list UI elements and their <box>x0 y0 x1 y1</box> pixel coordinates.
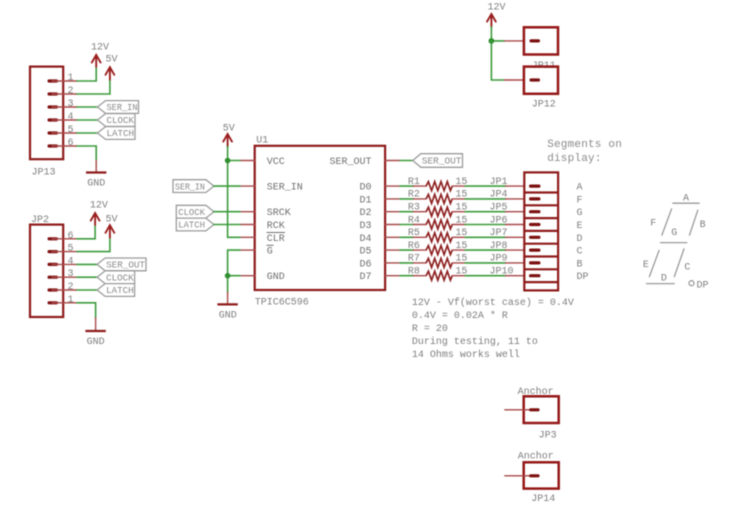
svg-text:JP12: JP12 <box>532 100 556 111</box>
connectors JP1 JP4 JP5 JP6 JP7 JP8 JP9 JP10 (stacked) <box>524 172 558 290</box>
resistor R8 <box>408 267 468 281</box>
svg-text:JP8: JP8 <box>490 241 508 252</box>
wire R7 to JP9 <box>452 254 524 265</box>
wire 12V to JP12 <box>491 41 524 80</box>
svg-text:R5: R5 <box>408 228 420 239</box>
svg-text:R4: R4 <box>408 215 420 226</box>
svg-text:D1: D1 <box>359 195 371 206</box>
segment E <box>643 250 659 276</box>
resistor R7 <box>408 254 468 268</box>
wire JP13 pin6 to GND <box>77 146 96 171</box>
wire R1 to JP1 <box>452 177 524 188</box>
net label CLOCK (JP2) <box>97 271 135 284</box>
svg-text:E: E <box>643 260 649 271</box>
svg-text:JP5: JP5 <box>490 203 508 214</box>
JP13 pin numbers 1-6 <box>68 73 74 149</box>
wire D2 to R3 <box>400 211 426 213</box>
segment D <box>647 274 675 285</box>
U1 right pin names <box>329 157 371 283</box>
net label SER_IN (JP13) <box>98 101 139 114</box>
svg-text:5: 5 <box>68 125 74 136</box>
svg-text:D0: D0 <box>359 183 371 194</box>
supply +12V (JP13) <box>91 43 109 67</box>
svg-text:D3: D3 <box>359 221 371 232</box>
segment G <box>661 228 687 243</box>
svg-text:SER_OUT: SER_OUT <box>329 157 371 168</box>
svg-text:JP3: JP3 <box>539 431 557 442</box>
connector JP2 <box>30 215 77 317</box>
wire 5V rail to VCC and CLR <box>228 147 240 238</box>
connector JP3 (Anchor) <box>505 386 559 442</box>
svg-text:JP14: JP14 <box>531 494 555 505</box>
U1 right pin stubs <box>385 161 400 276</box>
svg-text:LATCH: LATCH <box>178 220 205 231</box>
svg-text:CLR: CLR <box>267 234 285 245</box>
svg-text:JP6: JP6 <box>490 215 508 226</box>
svg-text:JP13: JP13 <box>32 168 56 179</box>
segment B <box>690 210 706 235</box>
net label LATCH (JP2) <box>97 284 135 297</box>
svg-text:C: C <box>684 263 690 274</box>
svg-text:CLOCK: CLOCK <box>106 272 134 283</box>
connector JP14 (Anchor) <box>505 451 559 506</box>
wire R6 to JP8 <box>452 241 524 252</box>
svg-text:R3: R3 <box>408 203 420 214</box>
wire CLOCK to SRCK <box>214 211 240 213</box>
wire R8 to JP10 <box>452 267 524 278</box>
svg-text:12V: 12V <box>488 3 506 14</box>
resistor R5 <box>408 228 468 242</box>
wire JP13 pin5 <box>77 132 98 134</box>
note: resistor calculation <box>412 297 574 361</box>
wire D0 to R1 <box>400 185 426 187</box>
wire JP13 pin1 to 12V <box>77 67 96 81</box>
svg-text:R1: R1 <box>408 177 420 188</box>
svg-text:6: 6 <box>68 231 74 242</box>
wire JP13 pin4 <box>77 119 98 121</box>
wire D1 to R2 <box>400 198 426 200</box>
segment F <box>650 209 671 235</box>
svg-text:6: 6 <box>68 138 74 149</box>
svg-text:G: G <box>267 247 273 258</box>
svg-text:D2: D2 <box>359 208 371 219</box>
svg-text:C: C <box>577 247 583 258</box>
wire SER_IN to U1 <box>214 185 240 187</box>
svg-text:D6: D6 <box>359 259 371 270</box>
wire R4 to JP6 <box>452 215 524 226</box>
net label SER_OUT (U1) <box>413 154 463 168</box>
svg-text:2: 2 <box>68 282 74 293</box>
svg-text:3: 3 <box>68 269 74 280</box>
ground GND (JP13) <box>86 173 106 190</box>
wire JP2 pin1 to GND <box>77 303 96 330</box>
svg-text:Segments on: Segments on <box>547 139 622 151</box>
svg-text:SER_IN: SER_IN <box>175 181 205 192</box>
svg-text:R2: R2 <box>408 190 420 201</box>
svg-text:JP2: JP2 <box>31 215 49 226</box>
svg-text:2: 2 <box>68 86 74 97</box>
supply +5V (JP2) <box>106 214 118 237</box>
svg-text:GND: GND <box>87 179 105 190</box>
svg-text:Anchor: Anchor <box>518 451 554 463</box>
svg-text:R6: R6 <box>408 241 420 252</box>
svg-text:E: E <box>577 221 583 232</box>
net label SER_IN (U1) <box>173 180 214 193</box>
svg-text:5: 5 <box>68 244 74 255</box>
svg-text:12V: 12V <box>90 201 108 212</box>
segment letters A F G E D C B DP <box>577 183 589 284</box>
wire JP2 pin3 <box>77 276 97 278</box>
svg-text:5V: 5V <box>106 214 118 225</box>
wire D7 to R8 <box>400 275 426 277</box>
svg-text:U1: U1 <box>256 136 268 147</box>
svg-text:14 Ohms works well: 14 Ohms works well <box>412 349 520 361</box>
seven-segment sketch: segment A <box>673 193 699 204</box>
svg-text:D7: D7 <box>359 272 371 283</box>
net label CLOCK (U1) <box>176 205 214 218</box>
svg-text:JP10: JP10 <box>490 267 514 278</box>
wire 12V to JP11 <box>491 27 524 41</box>
wire LATCH to RCK <box>214 224 240 226</box>
wire D4 to R5 <box>400 236 426 238</box>
svg-text:LATCH: LATCH <box>106 285 134 296</box>
svg-text:F: F <box>650 218 656 229</box>
net label CLOCK (JP13) <box>98 114 136 127</box>
svg-text:0.4V = 0.02A * R: 0.4V = 0.02A * R <box>412 310 508 322</box>
segment C <box>674 249 690 277</box>
svg-text:display:: display: <box>547 153 601 165</box>
svg-text:JP1: JP1 <box>490 177 508 188</box>
svg-text:CLOCK: CLOCK <box>107 115 135 126</box>
wire JP13 pin3 <box>77 106 98 108</box>
junction node VCC <box>225 158 231 164</box>
connector JP13 <box>30 67 77 179</box>
junction node 12V <box>489 38 495 44</box>
svg-text:D4: D4 <box>359 234 371 245</box>
svg-text:A: A <box>683 193 689 204</box>
wire R3 to JP5 <box>452 203 524 214</box>
note: Segments on display <box>547 139 622 165</box>
svg-text:GND: GND <box>219 311 237 322</box>
U1 left pin stubs <box>240 161 255 276</box>
wire R5 to JP7 <box>452 228 524 239</box>
supply +12V (JP2) <box>90 201 108 225</box>
svg-text:D5: D5 <box>359 247 371 258</box>
wire JP13 pin2 to 5V <box>77 80 110 94</box>
resistor R6 <box>408 241 468 255</box>
ground GND (U1) <box>217 292 237 321</box>
svg-text:DP: DP <box>577 272 589 283</box>
svg-text:CLOCK: CLOCK <box>178 207 205 218</box>
svg-text:5V: 5V <box>223 124 235 135</box>
svg-text:R = 20: R = 20 <box>412 324 448 335</box>
svg-text:SER_OUT: SER_OUT <box>422 156 462 167</box>
svg-text:GND: GND <box>267 272 285 283</box>
svg-text:SER_IN: SER_IN <box>107 102 138 113</box>
wire G to GND rail <box>228 250 240 292</box>
svg-text:SER_IN: SER_IN <box>267 183 303 194</box>
op-amp U1 (IC TPIC6C596 shift register box) <box>255 136 385 309</box>
svg-text:4: 4 <box>68 112 74 123</box>
svg-text:R8: R8 <box>408 267 420 278</box>
junction node GND <box>225 273 231 279</box>
wire D3 to R4 <box>400 224 426 226</box>
connector JP12 <box>524 67 558 111</box>
svg-text:VCC: VCC <box>267 157 285 168</box>
svg-text:LATCH: LATCH <box>107 128 135 139</box>
svg-text:4: 4 <box>68 256 74 267</box>
decimal point DP <box>689 281 709 292</box>
wire R2 to JP4 <box>452 190 524 201</box>
svg-text:G: G <box>671 228 677 239</box>
resistor R4 <box>408 215 468 229</box>
resistor R2 <box>408 190 468 204</box>
svg-text:F: F <box>577 195 583 206</box>
net label SER_OUT (JP2) <box>97 258 146 271</box>
svg-text:A: A <box>577 183 583 194</box>
U1 left pin names <box>267 157 303 283</box>
svg-text:G: G <box>577 208 583 219</box>
wire JP2 pin2 <box>77 289 97 291</box>
svg-text:1: 1 <box>68 295 74 306</box>
supply +5V (JP13) <box>106 55 118 80</box>
svg-text:R7: R7 <box>408 254 420 265</box>
connector JP11 <box>524 27 558 72</box>
svg-text:12V: 12V <box>91 43 109 54</box>
svg-text:12V - Vf(worst case) = 0.4V: 12V - Vf(worst case) = 0.4V <box>412 297 574 309</box>
net label LATCH (JP13) <box>98 127 136 140</box>
svg-text:D: D <box>577 234 583 245</box>
svg-text:SRCK: SRCK <box>267 208 291 219</box>
supply +12V (JP11/JP12) <box>487 3 506 27</box>
svg-text:JP7: JP7 <box>490 228 508 239</box>
svg-text:5V: 5V <box>106 55 118 66</box>
supply +5V (U1) <box>223 124 235 147</box>
resistor R3 <box>408 203 468 217</box>
svg-text:B: B <box>577 259 583 270</box>
ground GND (JP2) <box>85 331 105 348</box>
svg-text:JP4: JP4 <box>490 190 508 201</box>
svg-text:B: B <box>700 220 706 231</box>
svg-text:3: 3 <box>68 99 74 110</box>
wire D5 to R6 <box>400 249 426 251</box>
svg-text:RCK: RCK <box>267 221 285 232</box>
wire SER_OUT <box>400 160 413 162</box>
svg-text:GND: GND <box>87 337 105 348</box>
svg-text:JP9: JP9 <box>490 254 508 265</box>
wire JP2 pin6 to 12V <box>77 225 95 239</box>
wire D6 to R7 <box>400 262 426 264</box>
svg-text:TPIC6C596: TPIC6C596 <box>255 298 309 309</box>
svg-text:1: 1 <box>68 73 74 84</box>
JP2 pin numbers 6-1 <box>68 231 74 306</box>
svg-text:DP: DP <box>697 281 709 292</box>
svg-text:D: D <box>661 274 667 285</box>
wire JP2 pin4 <box>77 263 97 265</box>
wire JP2 pin5 to 5V <box>77 238 110 252</box>
resistor R1 <box>408 177 468 191</box>
svg-text:During testing, 11 to: During testing, 11 to <box>412 336 538 348</box>
net label LATCH (U1) <box>176 218 214 231</box>
svg-text:SER_OUT: SER_OUT <box>106 260 145 271</box>
